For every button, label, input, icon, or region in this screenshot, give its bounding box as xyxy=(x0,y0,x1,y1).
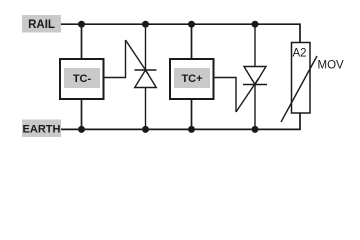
svg-text:A2: A2 xyxy=(293,48,307,60)
svg-text:EARTH: EARTH xyxy=(23,124,61,136)
svg-text:TC-: TC- xyxy=(73,73,92,85)
svg-text:TC+: TC+ xyxy=(181,73,202,85)
svg-text:MOV: MOV xyxy=(318,59,345,71)
svg-text:RAIL: RAIL xyxy=(28,19,55,31)
